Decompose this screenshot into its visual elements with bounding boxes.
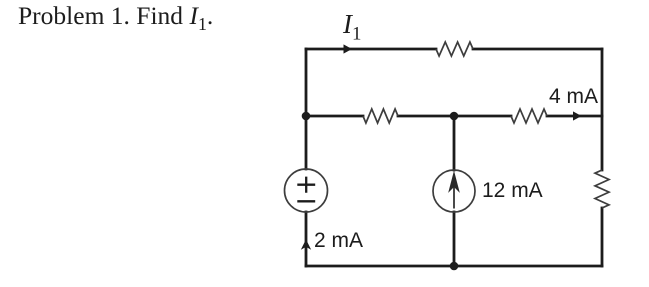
wire middle vertical lower xyxy=(453,212,456,266)
arrow for current 4 mA on row2 wire xyxy=(573,111,582,120)
node dot at middle row2 junction xyxy=(450,112,459,121)
wire left vertical lower xyxy=(305,212,308,266)
arrow for current 2 mA on left wire xyxy=(302,241,310,249)
resistor R_right (vertical) xyxy=(595,170,609,208)
value label 4 mA xyxy=(549,85,598,109)
wire left vertical upper xyxy=(305,49,308,169)
resistor R_top (top wire) xyxy=(436,42,473,56)
voltage source V1 circle xyxy=(285,169,328,212)
arrow for current I1 on top wire xyxy=(344,44,353,53)
wire row2 middle segment xyxy=(398,115,511,118)
title text xyxy=(18,1,213,31)
wire top-right segment xyxy=(473,48,602,51)
value label 2 mA xyxy=(314,229,363,253)
wire right vertical upper xyxy=(601,49,604,170)
value label 12 mA xyxy=(482,179,543,203)
voltage source V1 plus sign xyxy=(297,177,315,193)
node label I1 (current on top wire) xyxy=(343,9,361,40)
wire top-left segment xyxy=(306,48,436,51)
wire row2 right segment xyxy=(547,115,602,118)
wire row2 left segment xyxy=(306,115,363,118)
resistor R_row2_left xyxy=(363,109,398,123)
wire bottom xyxy=(306,265,602,268)
current source I_s arrow xyxy=(450,174,458,209)
resistor R_row2_right xyxy=(511,109,547,123)
wire middle vertical upper xyxy=(453,116,456,170)
voltage source V1 minus sign xyxy=(297,200,315,202)
node dot at left row2 junction xyxy=(302,112,311,121)
wire right vertical lower xyxy=(601,208,604,266)
node dot at bottom middle junction xyxy=(450,262,459,271)
current source I_s circle xyxy=(433,170,475,212)
